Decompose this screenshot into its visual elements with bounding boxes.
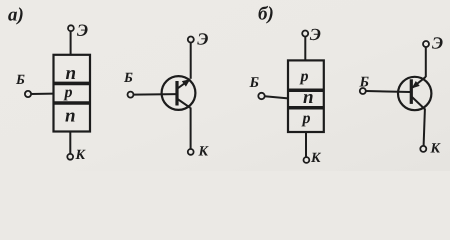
wire base (symbol a) [134,93,177,96]
wire collector (symbol b) [424,109,425,146]
wire base (structure a) [31,93,54,95]
terminal Э (structure a) [68,25,74,31]
terminal Б (structure b) [258,93,264,99]
wire collector (structure a) [69,132,71,155]
region label p (collector layer, structure b) [301,116,310,127]
transistor symbol VT2 (pnp) body circle [398,77,431,110]
label б) [259,6,273,24]
base bar (symbol b) [410,79,413,104]
background paper [0,0,450,171]
base bar (symbol a) [175,81,178,106]
transistor structure VT1 (n-p-n block) [54,55,91,132]
wire collector (symbol a) [190,108,192,150]
wire base (symbol b) [366,91,410,92]
terminal Б (structure a) [25,91,31,97]
terminal Э (symbol b) [423,41,429,47]
emitter lead with arrow (symbol b, pnp: arrow inwards) [413,77,426,88]
wire emitter (structure a) [70,31,72,55]
wire emitter (symbol a) [190,43,192,79]
collector lead (symbol b) [412,97,425,110]
wire base (structure b) [265,96,288,98]
emitter lead with arrow (symbol a, npn: arrow outwards) [178,79,191,88]
transistor symbol VT1 (npn) body circle [162,76,196,110]
region label n (collector layer, structure a) [65,113,74,122]
terminal Э (structure b) [302,31,308,37]
collector lead (symbol a) [178,99,191,108]
terminal К (structure a) [67,154,73,160]
wire emitter (structure b) [304,37,306,61]
terminal Б (symbol a) [128,92,134,98]
region label n (base layer, structure b) [303,94,312,103]
wire emitter (symbol b) [425,47,427,77]
wire collector (structure b) [305,132,307,157]
transistor structure VT2 (p-n-p block) [288,60,324,132]
label a) [8,7,22,24]
terminal Б (symbol b) [360,88,366,94]
terminal К (symbol a) [188,149,194,155]
region label p (emitter layer, structure b) [299,74,308,85]
terminal Э (symbol a) [188,37,194,43]
region label n (emitter layer, structure a) [66,70,75,79]
terminal К (symbol b) [420,146,426,152]
terminal К (structure b) [304,157,310,163]
region label p (base layer, structure a) [63,90,72,101]
